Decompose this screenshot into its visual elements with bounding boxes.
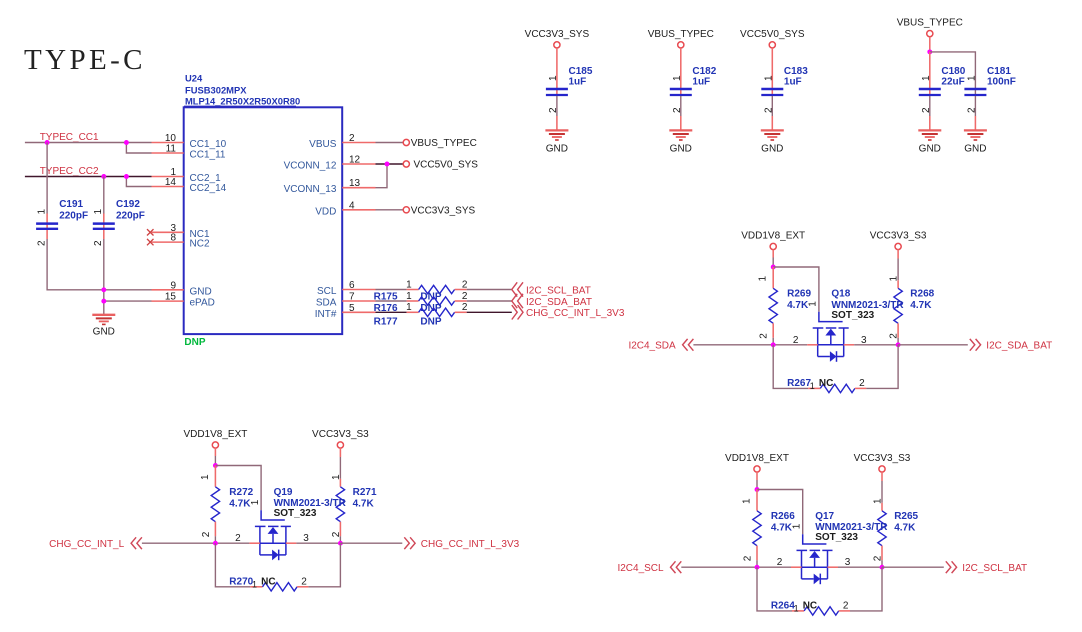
svg-text:4.7K: 4.7K: [894, 523, 916, 534]
svg-text:Q17: Q17: [815, 511, 834, 522]
svg-text:VDD1V8_EXT: VDD1V8_EXT: [725, 453, 789, 464]
wire I2C_SCL_BAT left: [376, 289, 407, 291]
svg-text:1: 1: [406, 291, 412, 302]
wire Q17 drain: [828, 566, 883, 568]
junction left Q18: [771, 342, 776, 347]
wire VBUS_TYPEC to C180: [929, 52, 931, 96]
svg-text:7: 7: [349, 292, 355, 303]
pin 15 ePAD: [152, 292, 215, 309]
wire Q19 source: [215, 542, 260, 544]
svg-text:TYPEC_CC2: TYPEC_CC2: [40, 166, 99, 177]
svg-text:12: 12: [349, 155, 361, 166]
wire VDD1V8_EXT down (Q17): [756, 472, 758, 490]
svg-text:2: 2: [462, 279, 468, 290]
svg-text:NC: NC: [803, 601, 817, 612]
power terminal VBUS_TYPEC (pair): [897, 18, 963, 37]
junction gate node (Q17): [755, 487, 760, 492]
svg-text:R269: R269: [787, 288, 811, 299]
svg-text:NC: NC: [261, 577, 275, 588]
ground under C182: [669, 130, 692, 154]
net label I2C4_SDA: [628, 340, 676, 351]
pin 13 VCONN_13: [284, 178, 376, 195]
transistor Q19 WNM2021-3/TR: [235, 487, 347, 560]
svg-text:2: 2: [843, 601, 849, 612]
net VCC3V3_SYS (pin 4): [376, 205, 476, 216]
wire CHG_CC_INT_L_3V3 right: [467, 311, 512, 313]
svg-text:NC: NC: [819, 378, 833, 389]
ground under C185: [545, 130, 568, 154]
wire I2C_SDA_BAT: [898, 344, 968, 346]
svg-text:2: 2: [873, 555, 884, 561]
net label CHG_CC_INT_L_3V3: [421, 539, 520, 550]
resistor R270 NC: [229, 577, 308, 591]
net label I2C_SCL_BAT: [962, 563, 1027, 574]
svg-text:2: 2: [349, 133, 355, 144]
net label TYPEC_CC2: [40, 166, 99, 177]
wire bottom loop left (Q19): [215, 543, 250, 587]
svg-text:VBUS_TYPEC: VBUS_TYPEC: [411, 138, 477, 149]
wire GND net to pin 9: [104, 289, 152, 291]
wire I2C4_SCL: [681, 566, 757, 568]
pin 3 NC1: [147, 223, 210, 240]
svg-text:DNP: DNP: [420, 316, 441, 327]
wire CHG_CC_INT_L_3V3: [340, 542, 402, 544]
svg-text:9: 9: [170, 280, 176, 291]
wire I2C_SDA_BAT left: [376, 300, 407, 302]
svg-text:C192: C192: [116, 199, 140, 210]
wire gate branch (Q18): [773, 267, 819, 312]
junction TYPEC_CC2/C192: [101, 174, 106, 179]
wire bottom loop left (Q17): [757, 567, 792, 611]
svg-text:CHG_CC_INT_L: CHG_CC_INT_L: [49, 539, 124, 550]
junction gate node (Q18): [771, 265, 776, 270]
svg-text:GND: GND: [919, 143, 941, 154]
svg-text:1uF: 1uF: [569, 76, 587, 87]
power terminal VBUS_TYPEC: [648, 29, 714, 48]
resistor R269 4.7K: [758, 267, 812, 345]
svg-text:CHG_CC_INT_L_3V3: CHG_CC_INT_L_3V3: [421, 539, 520, 550]
svg-text:TYPE-C: TYPE-C: [24, 44, 146, 76]
ground below C192: [92, 315, 115, 338]
net label I2C4_SCL: [617, 563, 664, 574]
svg-text:1: 1: [37, 209, 48, 215]
wire Q18 source: [773, 344, 818, 346]
svg-text:22uF: 22uF: [941, 76, 964, 87]
junction right Q18: [896, 342, 901, 347]
svg-text:2: 2: [331, 531, 342, 537]
ground under C181: [964, 130, 987, 154]
svg-text:C191: C191: [59, 199, 83, 210]
chevron CHG_CC_INT_L: [131, 537, 142, 549]
wire CC2 to C192: [103, 177, 105, 214]
wire Q18 drain: [844, 344, 898, 346]
net label I2C_SDA_BAT: [986, 340, 1052, 351]
net label CHG_CC_INT_L: [49, 539, 124, 550]
svg-text:1: 1: [741, 498, 752, 504]
svg-text:1uF: 1uF: [692, 76, 710, 87]
label DNP (IC): [184, 337, 205, 348]
junction ePAD net: [101, 299, 106, 304]
svg-text:ePAD: ePAD: [190, 298, 215, 309]
svg-text:R268: R268: [910, 288, 934, 299]
wire C192 to GND: [103, 239, 105, 315]
wire VDD1V8_EXT down (Q19): [214, 448, 216, 466]
capacitor C180: [919, 66, 966, 113]
svg-text:4.7K: 4.7K: [910, 300, 932, 311]
resistor R272 4.7K: [200, 466, 254, 544]
svg-text:SOT_323: SOT_323: [274, 508, 317, 519]
svg-text:1: 1: [808, 301, 819, 307]
svg-text:VCONN_12: VCONN_12: [284, 161, 337, 172]
resistor R265 4.7K: [873, 472, 919, 567]
svg-text:SDA: SDA: [316, 298, 337, 309]
wire VDD1V8_EXT down (Q18): [772, 250, 774, 268]
svg-text:VCC3V3_SYS: VCC3V3_SYS: [525, 29, 590, 40]
wire CHG_CC_INT_L_3V3 left: [376, 311, 407, 313]
pin 12 VCONN_12: [284, 155, 376, 172]
svg-text:2: 2: [859, 378, 865, 389]
pin 11 CC1_11: [152, 144, 226, 161]
svg-text:220pF: 220pF: [59, 211, 88, 222]
wire C182 to GND: [680, 96, 682, 130]
svg-text:1: 1: [889, 276, 900, 282]
wire I2C_SDA_BAT right: [467, 300, 512, 302]
svg-text:1: 1: [794, 603, 799, 613]
pin 2 VBUS: [309, 133, 375, 150]
svg-text:GND: GND: [93, 327, 115, 338]
svg-text:INT#: INT#: [315, 309, 337, 320]
junction right Q19: [338, 541, 343, 546]
pin 6 SCL: [317, 280, 376, 297]
svg-text:1: 1: [672, 75, 683, 81]
svg-text:2: 2: [462, 302, 468, 313]
svg-text:NC2: NC2: [190, 239, 210, 250]
svg-text:4.7K: 4.7K: [771, 523, 793, 534]
svg-text:1: 1: [331, 474, 342, 480]
wire VCC3V3_SYS to C185: [556, 48, 558, 96]
power terminal VCC3V3_S3 (Q18 block): [870, 231, 927, 250]
wire C185 to GND: [556, 96, 558, 130]
ground under C183: [761, 130, 784, 154]
svg-text:DNP: DNP: [184, 337, 205, 348]
pin 8 NC2: [147, 233, 210, 250]
wire Q19 drain: [286, 542, 341, 544]
power terminal VCC3V3_SYS: [525, 29, 590, 48]
svg-text:R264: R264: [771, 601, 795, 612]
svg-text:VCONN_13: VCONN_13: [284, 184, 337, 195]
chevron I2C_SCL_BAT: [512, 282, 523, 296]
pin 1 CC2_1: [152, 167, 222, 184]
title TYPE-C: [24, 44, 146, 76]
wire C183 to GND: [771, 96, 773, 130]
wire gate branch (Q19): [215, 466, 261, 511]
svg-text:2: 2: [93, 240, 104, 246]
net VBUS_TYPEC (pin 2): [376, 138, 477, 149]
svg-text:FUSB302MPX: FUSB302MPX: [185, 85, 247, 96]
svg-text:1: 1: [792, 523, 803, 529]
svg-text:VDD1V8_EXT: VDD1V8_EXT: [183, 429, 247, 440]
svg-text:R265: R265: [894, 511, 918, 522]
svg-text:4.7K: 4.7K: [229, 499, 251, 510]
svg-text:2: 2: [201, 531, 212, 537]
wire bridge to C181: [930, 52, 976, 96]
pin 5 INT#: [315, 303, 376, 320]
wire gate branch (Q17): [757, 490, 803, 535]
resistor R266 4.7K: [741, 490, 795, 568]
power terminal VDD1V8_EXT (Q19 block): [183, 429, 247, 448]
wire C181 to GND: [974, 96, 976, 130]
svg-text:GND: GND: [670, 143, 692, 154]
svg-text:MLP14_2R50X2R50X0R80: MLP14_2R50X2R50X0R80: [185, 96, 300, 107]
junction TYPEC_CC2 split: [124, 174, 129, 179]
svg-text:1: 1: [406, 279, 412, 290]
svg-text:R271: R271: [353, 487, 377, 498]
chevron CHG_CC_INT_L_3V3: [512, 305, 523, 319]
wire I2C_SCL_BAT right: [467, 289, 512, 291]
svg-text:11: 11: [166, 144, 177, 155]
resistor R264 NC: [771, 601, 850, 615]
capacitor C185: [546, 66, 593, 113]
svg-text:GND: GND: [761, 143, 783, 154]
wire I2C_SCL_BAT: [882, 566, 944, 568]
junction left Q19: [213, 541, 218, 546]
wire bottom loop right (Q19): [308, 543, 340, 587]
svg-text:SOT_323: SOT_323: [815, 532, 858, 543]
capacitor C191: [36, 199, 88, 246]
chevron I2C_SDA_BAT: [970, 339, 981, 351]
svg-text:2: 2: [301, 577, 307, 588]
net label I2C_SDA_BAT: [526, 297, 592, 308]
chevron I2C_SDA_BAT: [512, 294, 523, 308]
capacitor C182: [670, 66, 717, 113]
wire C180 to GND: [929, 96, 931, 130]
svg-text:SOT_323: SOT_323: [831, 310, 874, 321]
svg-text:1: 1: [548, 75, 559, 81]
wire CC1 to C191: [46, 143, 48, 214]
resistor R177 DNP: [374, 302, 468, 327]
junction TYPEC_CC1 split: [124, 140, 129, 145]
svg-text:R177: R177: [374, 316, 398, 327]
power terminal VDD1V8_EXT (Q17 block): [725, 453, 789, 472]
svg-text:VCC3V3_S3: VCC3V3_S3: [312, 429, 369, 440]
junction TYPEC_CC1/C191: [45, 140, 50, 145]
svg-text:1: 1: [406, 302, 412, 313]
junction left Q17: [755, 565, 760, 570]
resistor R176 DNP: [374, 291, 468, 314]
pin 10 CC1_10: [152, 133, 227, 150]
svg-text:1: 1: [200, 474, 211, 480]
wire VBUS_TYPEC to C182: [680, 48, 682, 96]
svg-text:1: 1: [967, 75, 978, 81]
chevron I2C4_SDA: [683, 339, 694, 351]
wire VCC5V0_SYS to C183: [771, 48, 773, 96]
junction VCC5V0_SYS: [385, 162, 390, 167]
svg-text:1: 1: [921, 75, 932, 81]
svg-text:8: 8: [170, 233, 176, 244]
svg-text:1: 1: [764, 75, 775, 81]
junction VBUS_TYPEC pair: [927, 49, 932, 54]
svg-text:1: 1: [810, 381, 815, 391]
svg-text:I2C4_SCL: I2C4_SCL: [617, 563, 664, 574]
wire TYPEC_CC1: [25, 143, 152, 154]
svg-text:VDD: VDD: [315, 206, 336, 217]
svg-text:I2C_SCL_BAT: I2C_SCL_BAT: [526, 285, 591, 296]
svg-text:VCC3V3_SYS: VCC3V3_SYS: [411, 205, 476, 216]
net VCC5V0_SYS (pins 12,13): [376, 160, 479, 188]
pin 7 SDA: [316, 292, 376, 309]
power terminal VCC3V3_S3 (Q19 block): [312, 429, 369, 448]
svg-text:VCC3V3_S3: VCC3V3_S3: [854, 453, 911, 464]
wire TYPEC_CC2: [25, 177, 152, 187]
junction gate node (Q19): [213, 463, 218, 468]
svg-text:VDD1V8_EXT: VDD1V8_EXT: [741, 231, 805, 242]
transistor Q18 WNM2021-3/TR: [793, 288, 905, 361]
svg-text:2: 2: [743, 555, 754, 561]
svg-text:1: 1: [873, 498, 884, 504]
svg-text:I2C_SDA_BAT: I2C_SDA_BAT: [526, 297, 592, 308]
svg-text:100nF: 100nF: [987, 76, 1016, 87]
svg-text:6: 6: [349, 280, 355, 291]
net label I2C_SCL_BAT: [526, 285, 591, 296]
svg-text:220pF: 220pF: [116, 211, 145, 222]
svg-text:1uF: 1uF: [784, 76, 802, 87]
capacitor C192: [93, 199, 145, 246]
IC U24 FUSB302MPX body: [184, 73, 343, 335]
svg-text:SCL: SCL: [317, 286, 337, 297]
svg-text:1: 1: [758, 276, 769, 282]
pin 4 VDD: [315, 200, 375, 217]
junction GND net: [101, 287, 106, 292]
svg-text:I2C_SCL_BAT: I2C_SCL_BAT: [962, 563, 1027, 574]
svg-text:2: 2: [37, 240, 48, 246]
power terminal VDD1V8_EXT (Q18 block): [741, 231, 805, 250]
svg-text:R267: R267: [787, 378, 811, 389]
svg-text:VBUS: VBUS: [309, 139, 337, 150]
svg-text:I2C4_SDA: I2C4_SDA: [628, 340, 676, 351]
svg-text:CHG_CC_INT_L_3V3: CHG_CC_INT_L_3V3: [526, 308, 625, 319]
svg-text:VBUS_TYPEC: VBUS_TYPEC: [897, 18, 963, 29]
junction right Q17: [880, 565, 885, 570]
svg-text:VCC5V0_SYS: VCC5V0_SYS: [414, 160, 479, 171]
svg-text:GND: GND: [190, 286, 212, 297]
svg-text:Q18: Q18: [831, 288, 850, 299]
svg-text:CC1_10: CC1_10: [190, 139, 227, 150]
svg-text:4.7K: 4.7K: [787, 300, 809, 311]
svg-text:14: 14: [165, 177, 177, 188]
power terminal VCC3V3_S3 (Q17 block): [854, 453, 911, 472]
pin 14 CC2_14: [152, 177, 227, 194]
power terminal VCC5V0_SYS: [740, 29, 805, 48]
chevron CHG_CC_INT_L_3V3: [404, 537, 415, 549]
wire VBUS_TYPEC down: [929, 37, 931, 52]
svg-text:R272: R272: [229, 487, 253, 498]
capacitor C183: [761, 66, 808, 113]
svg-text:4: 4: [349, 200, 355, 211]
svg-text:VBUS_TYPEC: VBUS_TYPEC: [648, 29, 714, 40]
pin 9 GND: [152, 280, 212, 297]
svg-text:15: 15: [165, 292, 177, 303]
svg-text:VCC5V0_SYS: VCC5V0_SYS: [740, 29, 805, 40]
svg-text:2: 2: [462, 291, 468, 302]
svg-text:GND: GND: [964, 143, 986, 154]
svg-text:2: 2: [889, 333, 900, 339]
svg-text:Q19: Q19: [274, 487, 293, 498]
ground under C180: [918, 130, 941, 154]
svg-text:13: 13: [349, 178, 361, 189]
svg-text:1: 1: [93, 209, 104, 215]
svg-text:VCC3V3_S3: VCC3V3_S3: [870, 231, 927, 242]
svg-text:R266: R266: [771, 511, 795, 522]
capacitor C181: [964, 66, 1016, 113]
chevron I2C4_SCL: [671, 561, 682, 573]
svg-text:5: 5: [349, 303, 355, 314]
net label CHG_CC_INT_L_3V3: [526, 308, 625, 319]
wire bottom loop left (Q18): [773, 345, 808, 389]
svg-text:1: 1: [252, 579, 257, 589]
wire bottom loop right (Q17): [850, 567, 882, 611]
svg-text:1: 1: [250, 499, 261, 505]
resistor R267 NC: [787, 378, 866, 392]
chevron I2C_SCL_BAT: [946, 561, 957, 573]
svg-text:10: 10: [165, 133, 177, 144]
wire C191 to GND net: [47, 239, 104, 290]
net label TYPEC_CC1: [40, 132, 99, 143]
svg-text:GND: GND: [546, 143, 568, 154]
svg-text:I2C_SDA_BAT: I2C_SDA_BAT: [986, 340, 1052, 351]
svg-text:CC2_14: CC2_14: [190, 183, 227, 194]
resistor R271 4.7K: [331, 448, 377, 543]
transistor Q17 WNM2021-3/TR: [777, 511, 889, 584]
wire Q17 source: [757, 566, 802, 568]
wire I2C4_SDA: [693, 344, 773, 346]
wire CHG_CC_INT_L: [142, 542, 216, 544]
resistor R268 4.7K: [889, 250, 935, 345]
wire ePAD net to pin 15: [104, 300, 152, 302]
svg-text:CC1_11: CC1_11: [190, 150, 226, 161]
resistor R175 DNP: [374, 279, 468, 302]
svg-text:R270: R270: [229, 577, 253, 588]
svg-text:2: 2: [759, 333, 770, 339]
wire bottom loop right (Q18): [866, 345, 898, 389]
svg-text:U24: U24: [185, 73, 203, 84]
svg-text:4.7K: 4.7K: [353, 499, 375, 510]
